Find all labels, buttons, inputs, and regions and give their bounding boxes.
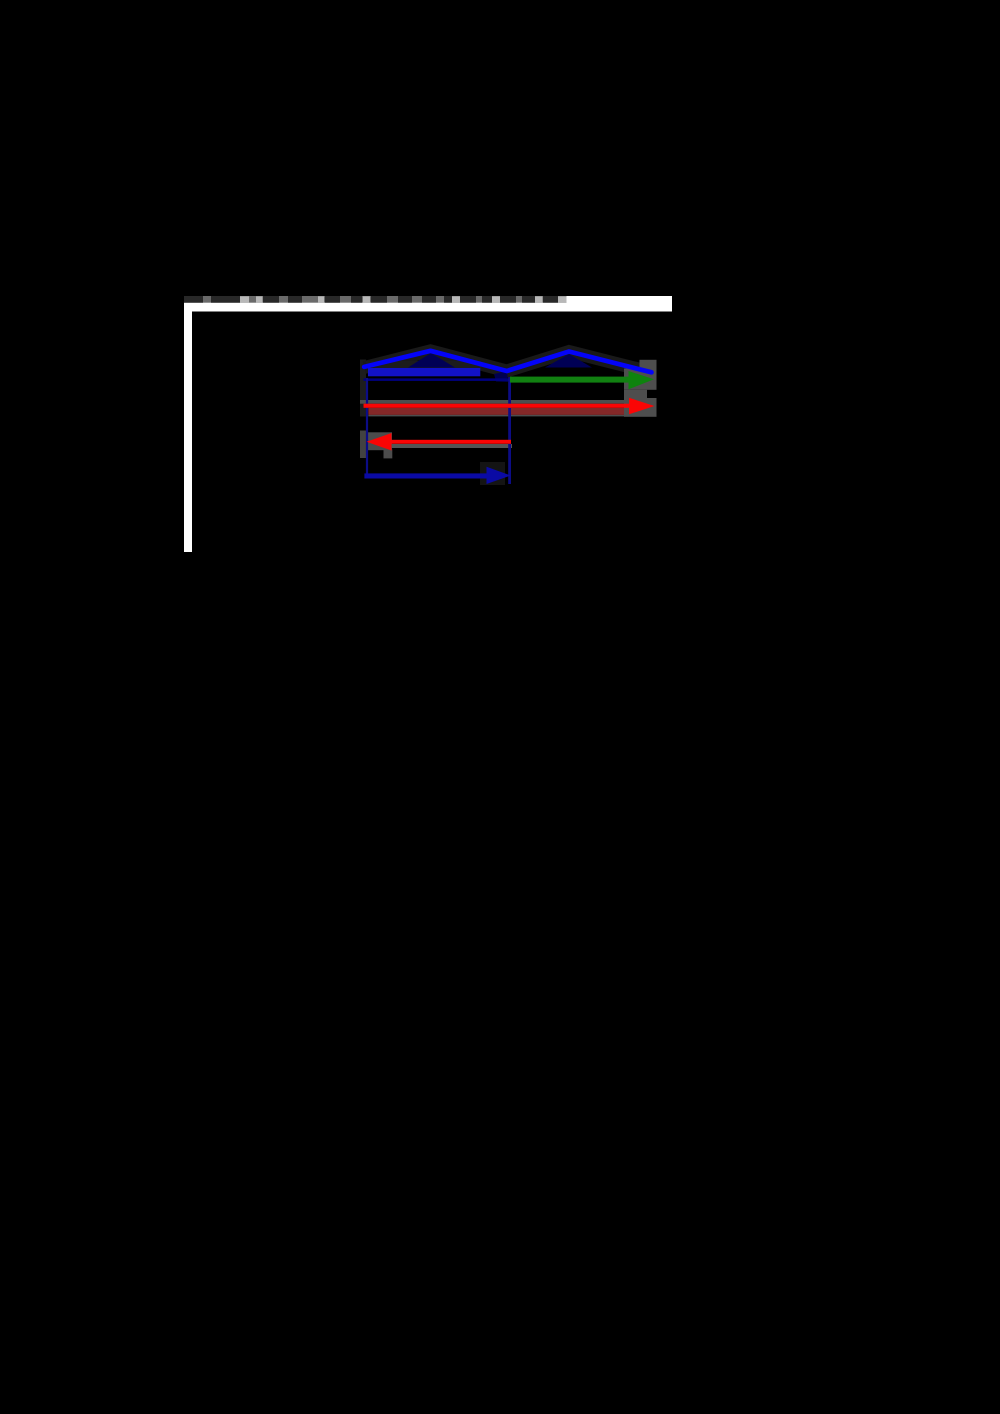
title glyph block d7: [371, 296, 387, 303]
title veil base: [184, 296, 567, 303]
ghost halo block around red arrow head: [624, 398, 657, 417]
green arrow head: [629, 371, 655, 389]
axis left white line: [184, 296, 192, 552]
ghost halo block around green arrow head: [624, 369, 657, 390]
title glyph block d12: [482, 296, 492, 303]
title glyph block d11: [460, 296, 476, 303]
ghost halo block above right arrow heads: [640, 360, 657, 369]
ghost halo band around zigzag: [364, 351, 651, 373]
title light gap l6: [492, 296, 500, 302]
ghost halo band below short red arrow: [384, 444, 512, 448]
navy shadow triangle under peak 2: [545, 354, 592, 368]
ghost halo thin band below dark red band: [368, 415, 624, 417]
title light gap l3: [318, 296, 324, 302]
dark red shadow band below long red arrow: [368, 408, 624, 415]
long red arrow head: [629, 398, 655, 415]
navy horizontal line between verticals: [364, 378, 511, 381]
navy shadow patch right of valley: [494, 371, 508, 382]
ghost halo left strip at short red arrow: [360, 431, 367, 459]
navy bottom arrow head: [487, 467, 511, 484]
title glyph block d9: [422, 296, 436, 303]
ghost halo around navy bottom arrow head: [480, 462, 505, 485]
short red arrow shaft: [380, 440, 511, 444]
title glyph block d2: [211, 296, 240, 303]
title light gap l2: [256, 296, 263, 302]
title glyph block d14: [522, 296, 535, 303]
axis top white bar: [184, 296, 672, 312]
navy bottom arrow shaft: [364, 473, 488, 478]
title glyph block d15: [543, 296, 558, 303]
title glyph block d10: [444, 296, 452, 303]
figure title band (black CJK text bottoms over white bar): [184, 296, 567, 303]
navy shadow triangle under peak 1: [408, 353, 455, 368]
title glyph block d13: [500, 296, 516, 303]
title light gap l5: [452, 296, 460, 302]
title glyph block d8: [398, 296, 412, 303]
ghost halo block between green and red heads: [624, 390, 647, 398]
title light gap l4: [363, 296, 370, 302]
title light gap l1: [240, 296, 249, 302]
blue bar arrow under first flank: [368, 368, 480, 376]
short red arrow head: [367, 433, 392, 451]
ghost halo left strip: [360, 360, 366, 417]
title glyph block d3: [263, 296, 279, 303]
title glyph block d1: [184, 296, 203, 303]
ghost halo square below short red head: [384, 449, 393, 458]
ghost halo band above long red arrow: [360, 400, 624, 404]
title glyph block d4: [288, 296, 302, 303]
ghost halo block behind short red arrow head: [367, 432, 392, 450]
title light gap l7: [535, 296, 543, 302]
green arrow shaft: [510, 377, 632, 383]
title glyph block d5: [325, 296, 340, 303]
title light gap l8: [558, 296, 567, 302]
blue series zigzag line: [364, 351, 651, 373]
long red arrow shaft: [364, 404, 634, 408]
navy vertical line left: [366, 378, 368, 476]
title glyph block d6: [351, 296, 362, 303]
navy vertical line right: [508, 377, 511, 484]
ghost halo band above blue bar: [366, 361, 481, 368]
